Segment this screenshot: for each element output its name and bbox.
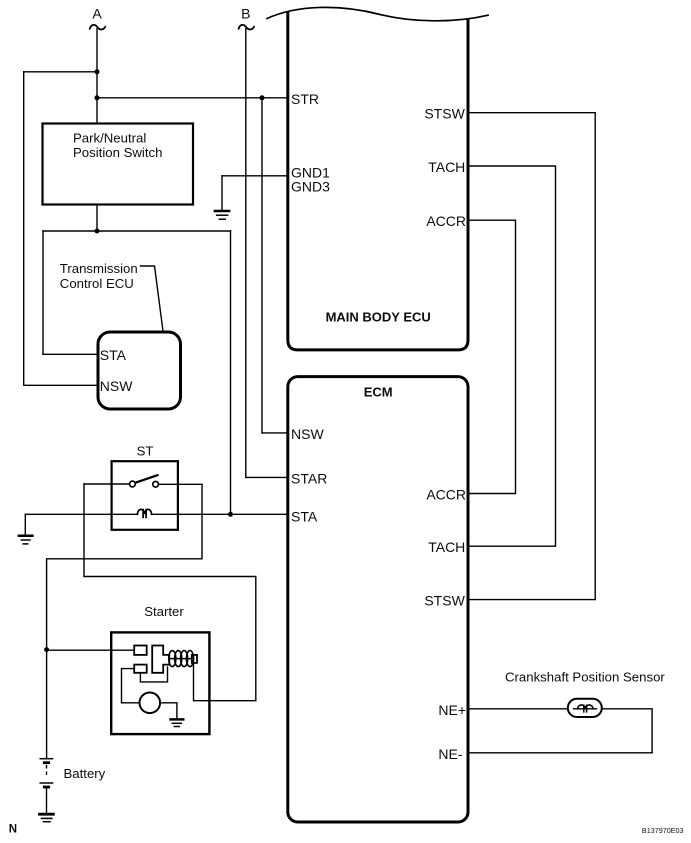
ground for GND1/GND3 [214,211,231,219]
node B [241,6,250,22]
starter plunger [152,646,169,673]
wire GND stem [221,176,223,210]
label Starter [144,604,184,619]
connector squiggle A [90,25,105,30]
svg-text:STSW: STSW [424,106,465,122]
svg-text:A: A [92,6,102,22]
svg-text:TACH: TACH [428,159,465,175]
svg-text:Park/Neutral: Park/Neutral [73,131,146,146]
wire motor to ground [160,703,177,718]
wire TACH link [468,166,556,546]
MAIN BODY ECU box [288,13,468,350]
sensor coil [574,708,597,710]
starter coil end cap [192,655,197,663]
starter contact square 2 [134,665,147,673]
svg-text:ACCR: ACCR [426,487,466,503]
wire ECM NSW pin [262,432,288,434]
label ST [137,443,154,458]
svg-text:MAIN BODY ECU: MAIN BODY ECU [326,309,431,324]
starter box [111,632,209,734]
ground for ST coil [18,536,34,544]
wire STA from coil to ECM [152,513,288,515]
wire STR [97,97,288,99]
torn edge wave [267,7,488,20]
wire left drop to STA of transmission ECU [42,231,44,354]
svg-text:B: B [241,6,250,22]
svg-text:NSW: NSW [291,426,324,442]
junction dots [44,69,264,652]
svg-text:Control ECU: Control ECU [60,276,134,291]
svg-text:ECM: ECM [364,384,393,399]
wire battery junction to starter contact [47,649,135,651]
wire from B down to STAR [245,29,247,478]
ECM box [288,377,468,822]
wire NE+ [468,708,568,710]
relay coil of ST [137,509,151,514]
ST switch box [112,461,178,530]
svg-text:STR: STR [291,91,319,107]
wire battery drop [46,650,48,758]
wire ST coil line left [25,513,137,515]
wire STAR pin [246,476,288,478]
wire ACCR link [468,220,516,493]
wire switch right loop [47,484,202,649]
svg-text:NE-: NE- [438,746,462,762]
battery [40,759,54,787]
svg-text:Transmission: Transmission [60,261,138,276]
callout line [141,266,164,331]
wire Park/Neutral bottom [96,205,98,232]
svg-text:Crankshaft Position Sensor: Crankshaft Position Sensor [505,669,665,684]
wire NE- [468,752,652,754]
svg-text:Starter: Starter [144,604,184,619]
switch lever [136,475,158,482]
starter contact square 1 [134,646,147,655]
pin STR [291,91,330,194]
ground for starter motor [169,719,184,726]
svg-text:Position Switch: Position Switch [73,145,162,160]
wire horizontal below Park/Neutral [43,230,231,232]
wire battery to ground [46,788,48,813]
wire coil to ST switch loop [194,663,256,701]
wire contact 2 lower U [140,667,167,682]
transmission control ECU box [98,332,181,409]
starter motor [140,693,161,714]
node A [92,6,102,22]
label N [9,823,17,835]
starter solenoid coil [169,658,192,660]
wire right drop to STA line [230,231,232,514]
wire STA pin of transmission ECU [43,353,99,355]
wire left vertical to NSW of transmission ECU [23,72,25,386]
label Crankshaft Position Sensor [505,669,665,684]
wire top-left branch horizontal [24,71,97,73]
svg-text:NSW: NSW [100,378,133,394]
svg-text:NE+: NE+ [438,702,466,718]
svg-text:Battery: Battery [64,766,106,781]
wire GND1/GND3 pin [222,175,288,177]
svg-text:STAR: STAR [291,470,327,486]
switch contact left [130,481,136,487]
svg-text:B137970E03: B137970E03 [642,826,684,835]
wire from switch right contact [159,483,203,485]
connector squiggle B [239,25,254,30]
svg-text:TACH: TACH [428,539,465,555]
svg-text:GND3: GND3 [291,178,330,194]
svg-text:STSW: STSW [424,593,465,609]
wire NSW pin of transmission ECU [24,384,99,386]
svg-text:STA: STA [291,508,318,524]
crankshaft position sensor body [568,699,602,717]
wire ST ground stem [24,514,26,534]
wire into switch left contact [84,483,130,485]
svg-text:STA: STA [100,347,127,363]
wire sensor to NE- [602,709,652,753]
wire from A down to Park/Neutral switch [96,29,98,124]
ground for battery [38,814,55,822]
wire STSW link [468,113,595,600]
wire contact 2 to motor [122,669,140,703]
figure code [642,826,684,835]
label Battery [64,766,106,781]
wire STR to ECM NSW vertical [261,98,263,433]
label Transmission Control ECU [60,261,138,291]
svg-text:N: N [9,823,17,835]
wire switch left loop [84,484,256,701]
svg-text:ST: ST [137,443,154,458]
switch contact right [153,481,159,487]
Park/Neutral Position Switch box [43,124,194,205]
svg-text:ACCR: ACCR [426,213,466,229]
